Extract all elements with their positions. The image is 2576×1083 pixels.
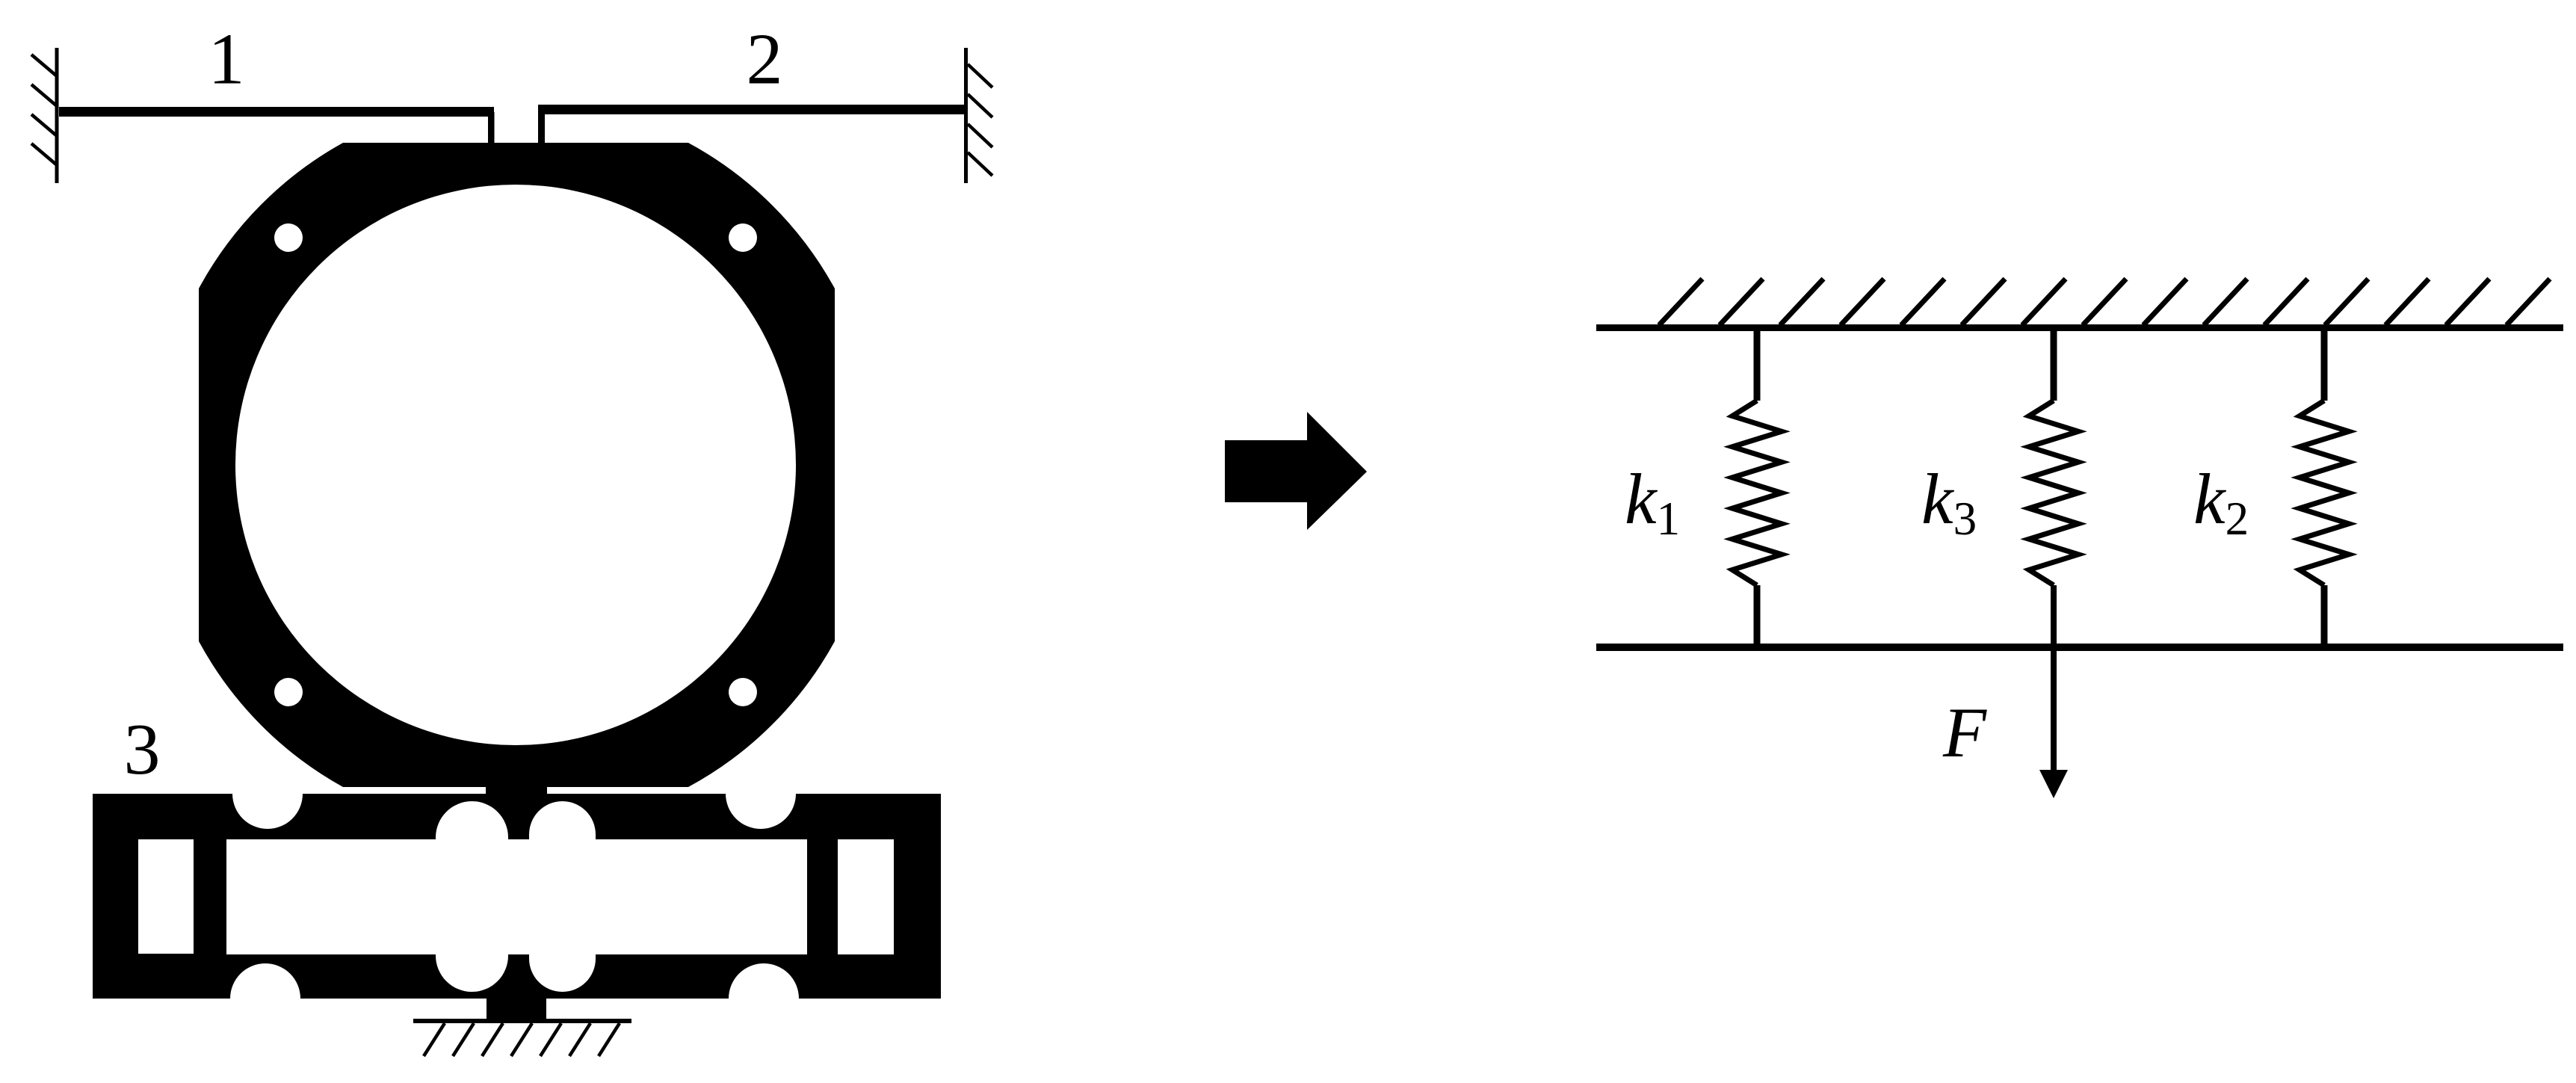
svg-text:k2: k2 (2193, 459, 2249, 545)
ceiling hatching (1659, 279, 2550, 325)
lower stage 3 (bar frame with flexure notches) (93, 794, 941, 999)
top edge notch left (232, 759, 303, 829)
beam 1 vertical stub (488, 112, 495, 144)
beam 2 vertical stub (538, 110, 545, 144)
spring k1 (1732, 324, 1782, 647)
bottom edge notch left (230, 963, 300, 1034)
beam 1 (59, 107, 494, 117)
big implication arrow (1225, 412, 1367, 530)
svg-text:k1: k1 (1625, 459, 1680, 545)
right fixed wall (964, 48, 992, 183)
top edge notch right (726, 759, 796, 829)
spring k3 (2029, 324, 2078, 585)
ceiling line (1596, 324, 2563, 331)
left fixed wall (31, 48, 59, 183)
svg-text:2: 2 (747, 19, 783, 100)
output line (1596, 644, 2563, 651)
flexure ring (octagonal ring with bore and 4 corner holes) (199, 143, 835, 787)
svg-text:k3: k3 (1921, 459, 1977, 545)
spring k2 (2299, 324, 2349, 647)
svg-text:1: 1 (209, 19, 245, 100)
beam 2 (538, 105, 966, 114)
ground line (413, 1019, 631, 1023)
svg-text:3: 3 (124, 709, 161, 790)
ground hatching (424, 1023, 620, 1056)
force arrow F (2039, 585, 2068, 798)
central slot left (436, 801, 508, 992)
bottom edge notch right (729, 963, 799, 1034)
svg-text:F: F (1942, 693, 1987, 772)
central slot right (529, 801, 596, 992)
stub stage to ground (487, 999, 546, 1020)
stub ring to stage (486, 785, 547, 795)
